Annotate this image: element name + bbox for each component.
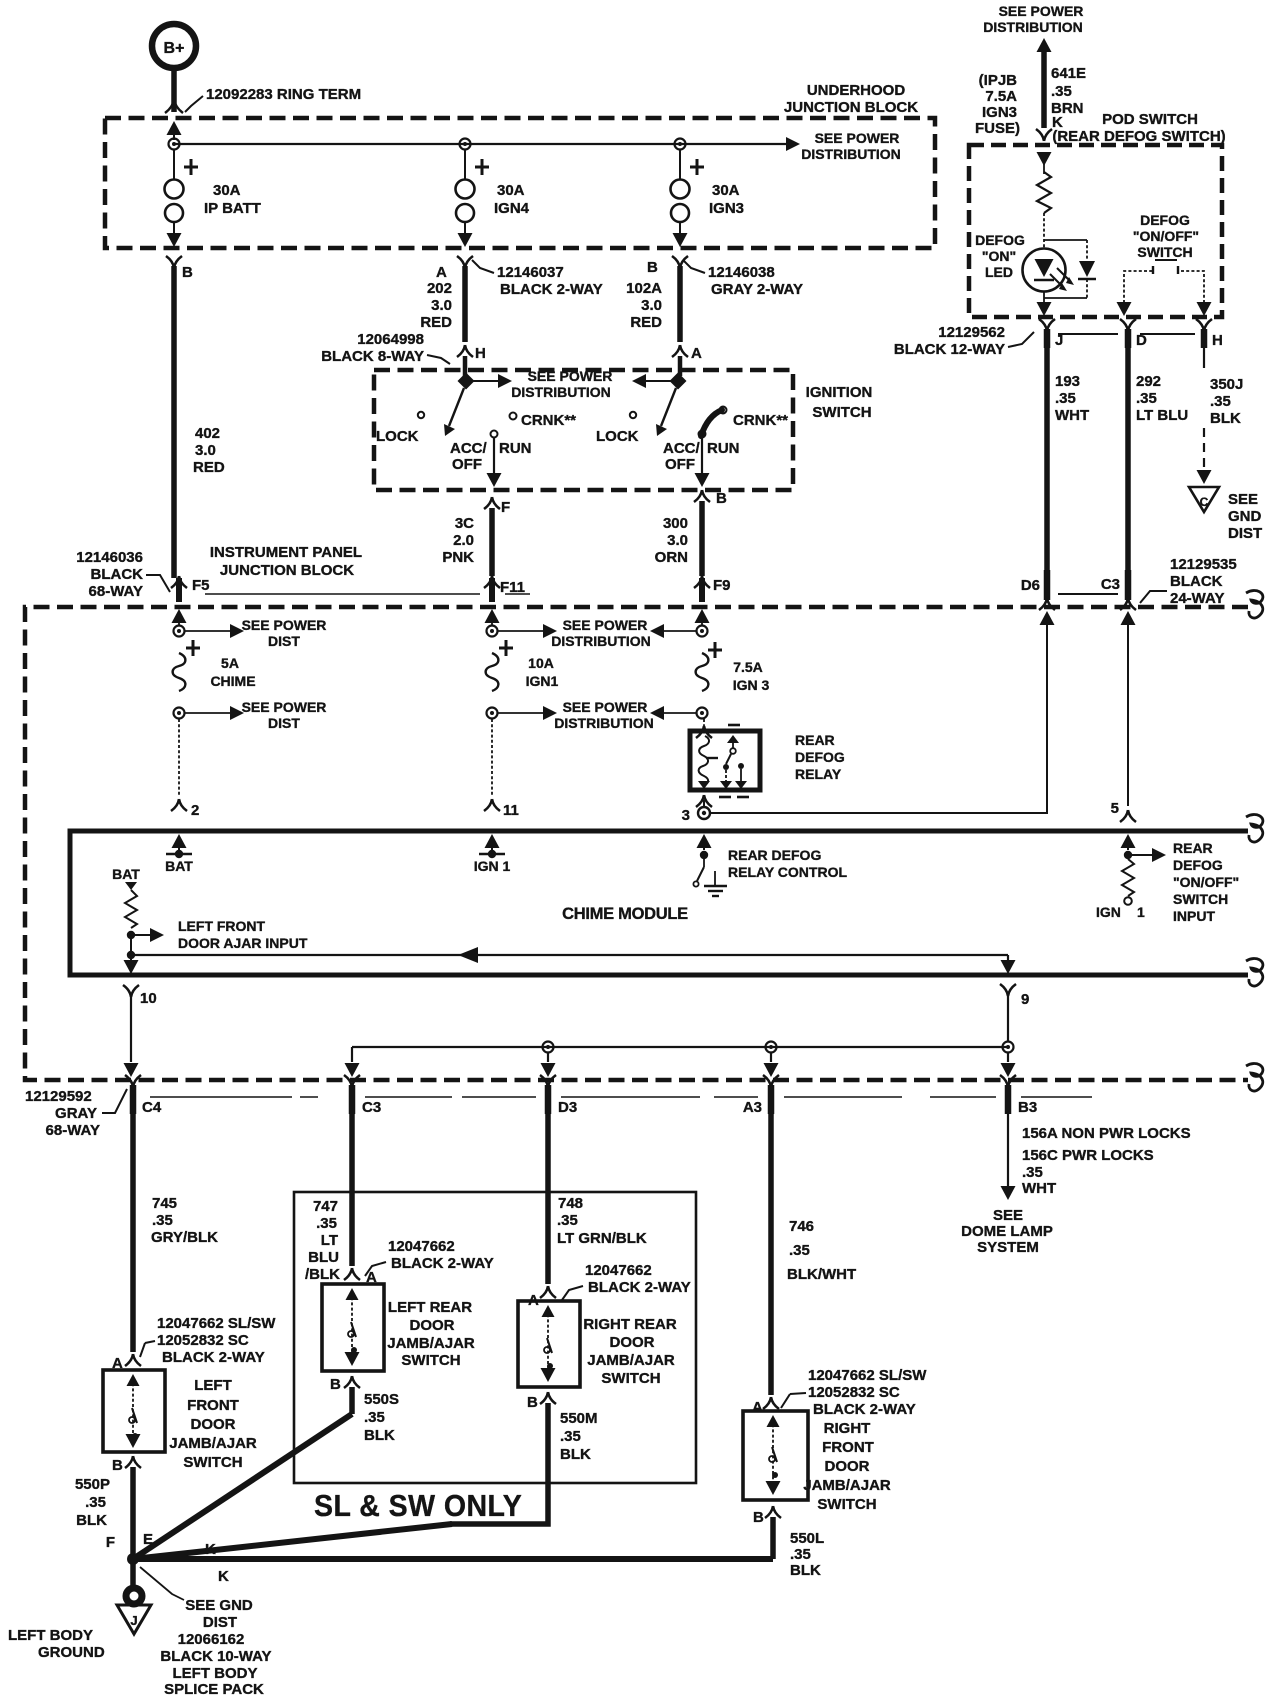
svg-text:12129592: 12129592: [25, 1088, 92, 1105]
svg-text:CRNK**: CRNK**: [733, 412, 788, 429]
ignition 1 output wire to F: [487, 438, 502, 487]
svg-text:SWITCH: SWITCH: [1173, 891, 1228, 907]
arrow into 24-way D6: [1040, 611, 1055, 625]
wire 746 .35 BLK/WHT: [771, 1114, 856, 1395]
instrument panel junction block (dashed outline): [25, 607, 1248, 1080]
title IGNITION SWITCH: [806, 384, 873, 421]
svg-text:DISTRIBUTION: DISTRIBUTION: [551, 633, 651, 649]
svg-text:B: B: [753, 1509, 764, 1526]
arrow left (upper, 7.5A): [650, 624, 696, 638]
svg-text:12066162: 12066162: [178, 1631, 245, 1648]
svg-text:402: 402: [195, 425, 220, 442]
svg-text:DIST: DIST: [1228, 525, 1262, 542]
wire 350J .35 BLK (to ground): [1197, 348, 1244, 484]
svg-text:REAR: REAR: [1173, 840, 1213, 856]
svg-text:LEFT REAR: LEFT REAR: [388, 1299, 472, 1316]
svg-text:RED: RED: [193, 459, 225, 476]
arrow to SEE POWER DISTRIBUTION: [786, 137, 800, 151]
chime module (box): [70, 831, 1248, 975]
svg-text:B: B: [112, 1457, 123, 1474]
svg-text:SYSTEM: SYSTEM: [977, 1239, 1039, 1256]
svg-text:LOCK: LOCK: [596, 428, 639, 445]
svg-text:RED: RED: [630, 314, 662, 331]
terminal 10 fork: [123, 985, 157, 1007]
wire 292 .35 LT BLU: [1128, 348, 1188, 575]
chime relay control node: [700, 851, 708, 859]
defog on/off switch contacts: [1124, 266, 1204, 303]
terminal A3 stub: [743, 1075, 779, 1116]
svg-text:DOOR AJAR INPUT: DOOR AJAR INPUT: [178, 935, 308, 951]
terminal K fork at pod switch: [1036, 129, 1052, 141]
svg-text:F9: F9: [713, 577, 731, 594]
label SEE DOME LAMP SYSTEM: [961, 1207, 1053, 1256]
label REAR DEFOG RELAY CONTROL: [728, 847, 847, 880]
wire 102A 3.0 RED: [626, 266, 680, 342]
svg-text:SWITCH: SWITCH: [812, 404, 871, 421]
terminal F9 stub: [694, 576, 731, 602]
svg-text:C3: C3: [362, 1099, 381, 1116]
connector 12146037 BLACK 2-WAY: [472, 260, 603, 298]
svg-text:A: A: [436, 264, 447, 281]
svg-text:H: H: [475, 345, 486, 362]
break squiggle (ipjb bottom right): [1246, 1064, 1263, 1091]
svg-text:INSTRUMENT PANEL: INSTRUMENT PANEL: [210, 544, 362, 561]
defog ON LED: [1023, 249, 1075, 292]
terminal C4 stub: [125, 1075, 162, 1116]
fuse 10A IGN1: [486, 640, 559, 691]
svg-text:D3: D3: [558, 1099, 577, 1116]
wire 550S .35 BLK: [352, 1387, 399, 1444]
svg-text:SWITCH: SWITCH: [401, 1352, 460, 1369]
label DEFOG "ON/OFF" SWITCH: [1133, 212, 1199, 260]
arrow LEFT FRONT DOOR AJAR INPUT: [135, 928, 164, 942]
svg-text:BLU: BLU: [308, 1249, 339, 1266]
relay coil terminal fork: [696, 726, 712, 738]
svg-text:LED: LED: [985, 264, 1013, 280]
svg-text:DOOR: DOOR: [410, 1317, 455, 1334]
terminal H stub: [1196, 319, 1223, 349]
svg-text:DOME LAMP: DOME LAMP: [961, 1223, 1053, 1240]
svg-text:LOCK: LOCK: [376, 428, 419, 445]
svg-text:UNDERHOOD: UNDERHOOD: [807, 82, 906, 99]
svg-text:(IPJB: (IPJB: [979, 72, 1018, 89]
svg-text:FUSE): FUSE): [975, 120, 1020, 137]
svg-text:BLK/WHT: BLK/WHT: [787, 1266, 856, 1283]
label DEFOG "ON" LED: [975, 232, 1025, 280]
wire 3C 2.0 PNK: [442, 508, 492, 576]
terminal B (left rear door switch): [330, 1376, 360, 1393]
svg-text:C3: C3: [1101, 576, 1120, 593]
svg-text:JAMB/AJAR: JAMB/AJAR: [387, 1335, 475, 1352]
fuse 10A IGN1 feed arrow: [485, 609, 500, 625]
svg-text:RED: RED: [420, 314, 452, 331]
svg-text:.35: .35: [790, 1546, 811, 1563]
ground triangle J: [117, 1605, 151, 1634]
svg-text:REAR DEFOG: REAR DEFOG: [728, 847, 821, 863]
terminal D stub: [1120, 319, 1147, 349]
svg-text:OFF: OFF: [452, 456, 482, 473]
label (IPJB 7.5A IGN3 FUSE): [975, 72, 1020, 137]
svg-text:CHIME MODULE: CHIME MODULE: [562, 905, 688, 923]
svg-text:.35: .35: [85, 1494, 106, 1511]
svg-text:550L: 550L: [790, 1530, 824, 1547]
svg-text:RELAY: RELAY: [795, 766, 842, 782]
relay contact: [723, 735, 744, 786]
svg-text:30A: 30A: [213, 182, 241, 199]
wire 550L .35 BLK: [773, 1517, 824, 1579]
svg-text:REAR: REAR: [795, 732, 835, 748]
wire 550P .35 BLK: [75, 1467, 133, 1556]
arrow into chime at BAT: [172, 834, 187, 853]
svg-text:FRONT: FRONT: [187, 1397, 239, 1414]
svg-text:SEE POWER: SEE POWER: [242, 699, 327, 715]
door switch distribution bus: [352, 1046, 1008, 1048]
splice above 7.5A fuse: [697, 626, 708, 637]
svg-text:5A: 5A: [221, 655, 239, 671]
svg-text:24-WAY: 24-WAY: [1170, 590, 1224, 607]
svg-text:68-WAY: 68-WAY: [46, 1122, 100, 1139]
connector 12047662 SL/SW 12052832 SC BLACK 2-WAY (right front): [781, 1367, 927, 1418]
svg-text:193: 193: [1055, 373, 1080, 390]
title POD SWITCH (REAR DEFOG SWITCH): [1052, 111, 1225, 145]
svg-text:IGNITION: IGNITION: [806, 384, 873, 401]
svg-text:746: 746: [789, 1218, 814, 1235]
svg-text:F: F: [501, 499, 510, 516]
svg-text:BLACK 2-WAY: BLACK 2-WAY: [162, 1349, 265, 1366]
svg-text:DEFOG: DEFOG: [1140, 212, 1190, 228]
connector 12129535 BLACK 24-WAY: [1140, 556, 1237, 607]
wire 745 .35 GRY/BLK: [133, 1114, 218, 1352]
svg-text:GROUND: GROUND: [38, 1644, 105, 1661]
svg-text:1: 1: [1137, 904, 1145, 920]
chime IGN 1 pin: [474, 850, 511, 874]
relay output fork: [696, 795, 712, 807]
svg-text:J: J: [130, 1613, 137, 1628]
svg-text:BLACK 10-WAY: BLACK 10-WAY: [160, 1648, 271, 1665]
wire 202 3.0 RED: [420, 266, 465, 342]
branch wire to C3: [345, 1047, 360, 1077]
svg-text:"ON/OFF": "ON/OFF": [1133, 228, 1199, 244]
splice below 10A fuse: [487, 708, 498, 719]
svg-text:12047662 SL/SW: 12047662 SL/SW: [808, 1367, 927, 1384]
terminal F below ignition switch: [484, 497, 510, 516]
svg-text:H: H: [1212, 332, 1223, 349]
wire relay control to D6 (via ipjb): [710, 620, 1047, 813]
svg-text:RIGHT REAR: RIGHT REAR: [583, 1316, 677, 1333]
ring terminal fork at underhood block: [165, 99, 183, 113]
splice pack terminal letters F E: [106, 1531, 153, 1551]
arrow into pod switch: [1037, 152, 1052, 174]
terminal J stub: [1039, 319, 1063, 349]
svg-text:LT: LT: [321, 1232, 338, 1249]
svg-text:BLACK 2-WAY: BLACK 2-WAY: [500, 281, 603, 298]
svg-text:JAMB/AJAR: JAMB/AJAR: [587, 1352, 675, 1369]
underhood junction block (dashed box): [105, 118, 935, 248]
arrow into chime at switch input: [1121, 834, 1136, 850]
svg-text:JAMB/AJAR: JAMB/AJAR: [803, 1477, 891, 1494]
arrow into chime at relay control: [697, 834, 712, 850]
connector 12129562 BLACK 12-WAY: [894, 324, 1034, 358]
svg-text:BLACK 12-WAY: BLACK 12-WAY: [894, 341, 1005, 358]
wire resistor to LED: [1043, 213, 1045, 249]
chime switch input node: [1124, 851, 1132, 859]
svg-text:WHT: WHT: [1055, 407, 1089, 424]
svg-text:SWITCH: SWITCH: [817, 1496, 876, 1513]
svg-text:DIST: DIST: [203, 1614, 237, 1631]
svg-text:12047662: 12047662: [388, 1238, 455, 1255]
svg-text:9: 9: [1021, 991, 1029, 1008]
svg-text:7.5A: 7.5A: [985, 88, 1017, 105]
splice above 5A fuse: [174, 626, 185, 637]
fuse 7.5A IGN3 feed arrow: [695, 609, 710, 625]
svg-text:B: B: [527, 1394, 538, 1411]
svg-text:RUN: RUN: [499, 440, 532, 457]
title INSTRUMENT PANEL JUNCTION BLOCK: [210, 544, 362, 579]
connector 12064998 BLACK 8-WAY: [321, 331, 450, 365]
svg-text:2: 2: [191, 802, 199, 819]
svg-text:12047662: 12047662: [585, 1262, 652, 1279]
svg-text:DEFOG: DEFOG: [1173, 857, 1223, 873]
svg-text:C: C: [1200, 495, 1209, 509]
ignition 2 RUN contact: [699, 431, 740, 458]
svg-text:68-WAY: 68-WAY: [89, 583, 143, 600]
svg-text:/BLK: /BLK: [305, 1266, 340, 1283]
arrow to see power distribution (ignition 1): [472, 374, 512, 388]
svg-text:DISTRIBUTION: DISTRIBUTION: [554, 715, 654, 731]
svg-text:350J: 350J: [1210, 376, 1243, 393]
svg-text:ACC/: ACC/: [450, 440, 487, 457]
wire between chime nodes: [130, 935, 132, 955]
svg-text:BLK: BLK: [560, 1446, 591, 1463]
svg-text:DOOR: DOOR: [825, 1458, 870, 1475]
svg-text:CRNK**: CRNK**: [521, 412, 576, 429]
svg-text:LEFT FRONT: LEFT FRONT: [178, 918, 266, 934]
label LEFT FRONT DOOR AJAR INPUT: [178, 918, 308, 951]
svg-text:12146038: 12146038: [708, 264, 775, 281]
terminal C3 stub (gray 68-way): [344, 1075, 381, 1116]
svg-text:INPUT: INPUT: [1173, 908, 1215, 924]
svg-text:JAMB/AJAR: JAMB/AJAR: [169, 1435, 257, 1452]
svg-text:SWITCH: SWITCH: [601, 1370, 660, 1387]
svg-text:IGN4: IGN4: [494, 200, 530, 217]
splice node at IP BATT fuse: [169, 139, 180, 150]
svg-text:2.0: 2.0: [453, 532, 474, 549]
svg-text:550S: 550S: [364, 1391, 399, 1408]
svg-text:B: B: [647, 259, 658, 276]
svg-text:3.0: 3.0: [195, 442, 216, 459]
svg-text:C4: C4: [142, 1099, 162, 1116]
svg-text:641E: 641E: [1051, 65, 1086, 82]
svg-text:DIST: DIST: [268, 633, 300, 649]
svg-text:.35: .35: [364, 1409, 385, 1426]
svg-text:30A: 30A: [497, 182, 525, 199]
svg-text:IGN3: IGN3: [709, 200, 744, 217]
terminal F11 stub: [484, 576, 530, 602]
terminal A at ignition switch feed: [672, 345, 702, 376]
arrow SEE POWER DIST (upper, 5A): [185, 617, 326, 649]
svg-text:3.0: 3.0: [431, 297, 452, 314]
svg-text:OFF: OFF: [665, 456, 695, 473]
ignition switch section 2 input contact (diamond): [670, 373, 687, 390]
svg-text:SEE: SEE: [993, 1207, 1023, 1224]
svg-text:BAT: BAT: [165, 858, 193, 874]
svg-text:12129562: 12129562: [938, 324, 1005, 341]
svg-text:292: 292: [1136, 373, 1161, 390]
label RIGHT REAR DOOR JAMB/AJAR SWITCH: [583, 1316, 677, 1387]
wire K bus to ground splice: [133, 1556, 773, 1562]
fuse 5A CHIME feed arrow: [172, 609, 187, 625]
svg-text:.35: .35: [1051, 83, 1072, 100]
connector 12047662 SL/SW 12052832 SC BLACK 2-WAY (left front): [140, 1315, 276, 1366]
ignition 1 RUN contact: [491, 431, 532, 458]
68-way connector face line: [205, 593, 480, 595]
svg-text:LT BLU: LT BLU: [1136, 407, 1188, 424]
fuse 30A IGN3: [671, 150, 745, 247]
chime internal pull resistor to IGN 1: [1096, 859, 1145, 920]
svg-text:GRAY 2-WAY: GRAY 2-WAY: [711, 281, 803, 298]
connector 12129592 GRAY 68-WAY: [25, 1088, 127, 1139]
leader to SEE GND DIST: [140, 1567, 184, 1600]
left front door jamb/ajar switch (box): [103, 1370, 165, 1452]
arrow SEE POWER DIST (lower, 5A): [185, 699, 326, 731]
svg-text:LEFT BODY: LEFT BODY: [8, 1627, 93, 1644]
svg-text:.35: .35: [560, 1428, 581, 1445]
svg-text:IGN: IGN: [1096, 904, 1121, 920]
svg-text:DEFOG: DEFOG: [975, 232, 1025, 248]
ignition 1 LOCK contact: [376, 412, 424, 445]
svg-text:BLK: BLK: [76, 1512, 107, 1529]
svg-text:F5: F5: [192, 577, 210, 594]
terminal 5 fork: [1111, 800, 1136, 822]
svg-text:BLK: BLK: [790, 1562, 821, 1579]
connector terminal B below IP BATT fuse: [166, 256, 193, 281]
ignition switch (dashed box): [374, 370, 793, 490]
B+ bus wire inside block: [174, 143, 790, 145]
terminal D6 stub: [1021, 570, 1055, 610]
svg-text:SEE POWER: SEE POWER: [528, 368, 613, 384]
svg-text:A: A: [752, 1399, 763, 1416]
arrow SEE POWER DISTRIBUTION (lower, 10A): [498, 699, 654, 731]
branch wire to D3: [541, 1052, 556, 1077]
svg-text:F: F: [106, 1534, 115, 1551]
label SEE POWER DISTRIBUTION (underhood): [801, 130, 901, 162]
svg-text:(REAR DEFOG SWITCH): (REAR DEFOG SWITCH): [1052, 128, 1225, 145]
arrow SEE POWER DISTRIBUTION (upper, 10A): [498, 617, 651, 649]
svg-text:.35: .35: [1022, 1164, 1043, 1181]
dash mark above relay contact: [728, 724, 740, 727]
svg-text:SEE: SEE: [1228, 491, 1258, 508]
svg-text:GRAY: GRAY: [55, 1105, 97, 1122]
terminal A (right front door switch): [752, 1397, 779, 1416]
svg-text:12129535: 12129535: [1170, 556, 1237, 573]
wire 747 .35 LT BLU/BLK: [305, 1114, 352, 1283]
svg-text:12146036: 12146036: [76, 549, 143, 566]
connector 12047662 BLACK 2-WAY (right rear): [562, 1262, 691, 1300]
svg-text:102A: 102A: [626, 280, 662, 297]
connector 12146036 BLACK 68-WAY: [76, 549, 170, 600]
svg-text:10: 10: [140, 990, 157, 1007]
svg-text:CHIME: CHIME: [210, 673, 255, 689]
svg-text:12092283 RING TERM: 12092283 RING TERM: [206, 86, 361, 103]
connector 12047662 BLACK 2-WAY (left rear): [365, 1238, 494, 1276]
svg-text:12064998: 12064998: [357, 331, 424, 348]
svg-text:RIGHT: RIGHT: [824, 1420, 871, 1437]
splice node at IGN4 fuse: [460, 139, 471, 150]
wire 402 3.0 RED: [174, 266, 225, 578]
splice ring at D3 branch: [543, 1042, 554, 1053]
switch pole arrows at pod bottom: [1117, 302, 1212, 316]
terminal A (left rear door switch): [344, 1268, 377, 1286]
terminal D3 stub: [540, 1075, 577, 1116]
svg-text:5: 5: [1111, 800, 1119, 817]
left rear door jamb/ajar switch (box): [322, 1284, 384, 1371]
svg-text:B+: B+: [164, 40, 185, 57]
arrow to switch input label: [1132, 848, 1166, 862]
label REAR DEFOG RELAY: [795, 732, 845, 782]
svg-text:12047662 SL/SW: 12047662 SL/SW: [157, 1315, 276, 1332]
terminal A (right rear door switch): [528, 1286, 556, 1309]
svg-text:BLACK 2-WAY: BLACK 2-WAY: [588, 1279, 691, 1296]
svg-text:202: 202: [427, 280, 452, 297]
terminal B3 stub: [1000, 1075, 1037, 1116]
arrow to see power distribution (ignition 2, pointing left): [632, 374, 672, 388]
chime door ajar input node: [127, 931, 135, 939]
svg-text:SL & SW ONLY: SL & SW ONLY: [314, 1489, 522, 1523]
wire B3 to dome lamp system: [1001, 1114, 1191, 1200]
wire C3 to chime terminal 5: [1121, 611, 1136, 806]
svg-text:748: 748: [558, 1195, 583, 1212]
svg-text:IGN3: IGN3: [982, 104, 1017, 121]
svg-text:DISTRIBUTION: DISTRIBUTION: [801, 146, 901, 162]
svg-text:3C: 3C: [455, 515, 474, 532]
battery terminal B+: [152, 24, 196, 68]
chime internal bus wire with diode arrow: [131, 947, 1016, 974]
branch wire to B3: [1001, 1052, 1016, 1077]
wire 550S diagonal to ground splice: [133, 1414, 352, 1559]
svg-text:LEFT: LEFT: [194, 1377, 232, 1394]
wire terminal 9 down: [1007, 996, 1009, 1042]
svg-text:ORN: ORN: [655, 549, 688, 566]
label SEE POWER DISTRIBUTION (pod feed): [983, 3, 1083, 35]
title UNDERHOOD JUNCTION BLOCK: [784, 82, 918, 116]
svg-text:SEE GND: SEE GND: [185, 1597, 253, 1614]
svg-text:.35: .35: [1136, 390, 1157, 407]
terminal 9 fork: [1000, 984, 1029, 1008]
terminal B (right rear door switch): [527, 1392, 556, 1411]
label LEFT REAR DOOR JAMB/AJAR SWITCH: [387, 1299, 475, 1369]
svg-text:K: K: [218, 1568, 229, 1585]
svg-text:LEFT BODY: LEFT BODY: [173, 1665, 258, 1682]
svg-text:"ON/OFF": "ON/OFF": [1173, 874, 1239, 890]
svg-text:JUNCTION BLOCK: JUNCTION BLOCK: [220, 562, 354, 579]
arrow from ring terminal into block: [167, 121, 182, 140]
chime door ajar bus node: [127, 951, 135, 959]
svg-text:BLACK 2-WAY: BLACK 2-WAY: [813, 1401, 916, 1418]
svg-text:3.0: 3.0: [641, 297, 662, 314]
svg-text:3.0: 3.0: [667, 532, 688, 549]
svg-text:DIST: DIST: [268, 715, 300, 731]
svg-text:BLACK 8-WAY: BLACK 8-WAY: [321, 348, 424, 365]
svg-text:FRONT: FRONT: [822, 1439, 874, 1456]
wire 5A fuse to chime terminal 2: [178, 719, 180, 797]
ground splice junction: [127, 1553, 139, 1565]
svg-text:BLK: BLK: [364, 1427, 395, 1444]
arrow left (lower, 7.5A): [650, 706, 696, 720]
svg-text:SWITCH: SWITCH: [183, 1454, 242, 1471]
ignition 1 rotor arm: [444, 388, 464, 436]
svg-text:IGN 3: IGN 3: [733, 677, 770, 693]
label ACC/OFF (ignition 1): [450, 440, 487, 473]
